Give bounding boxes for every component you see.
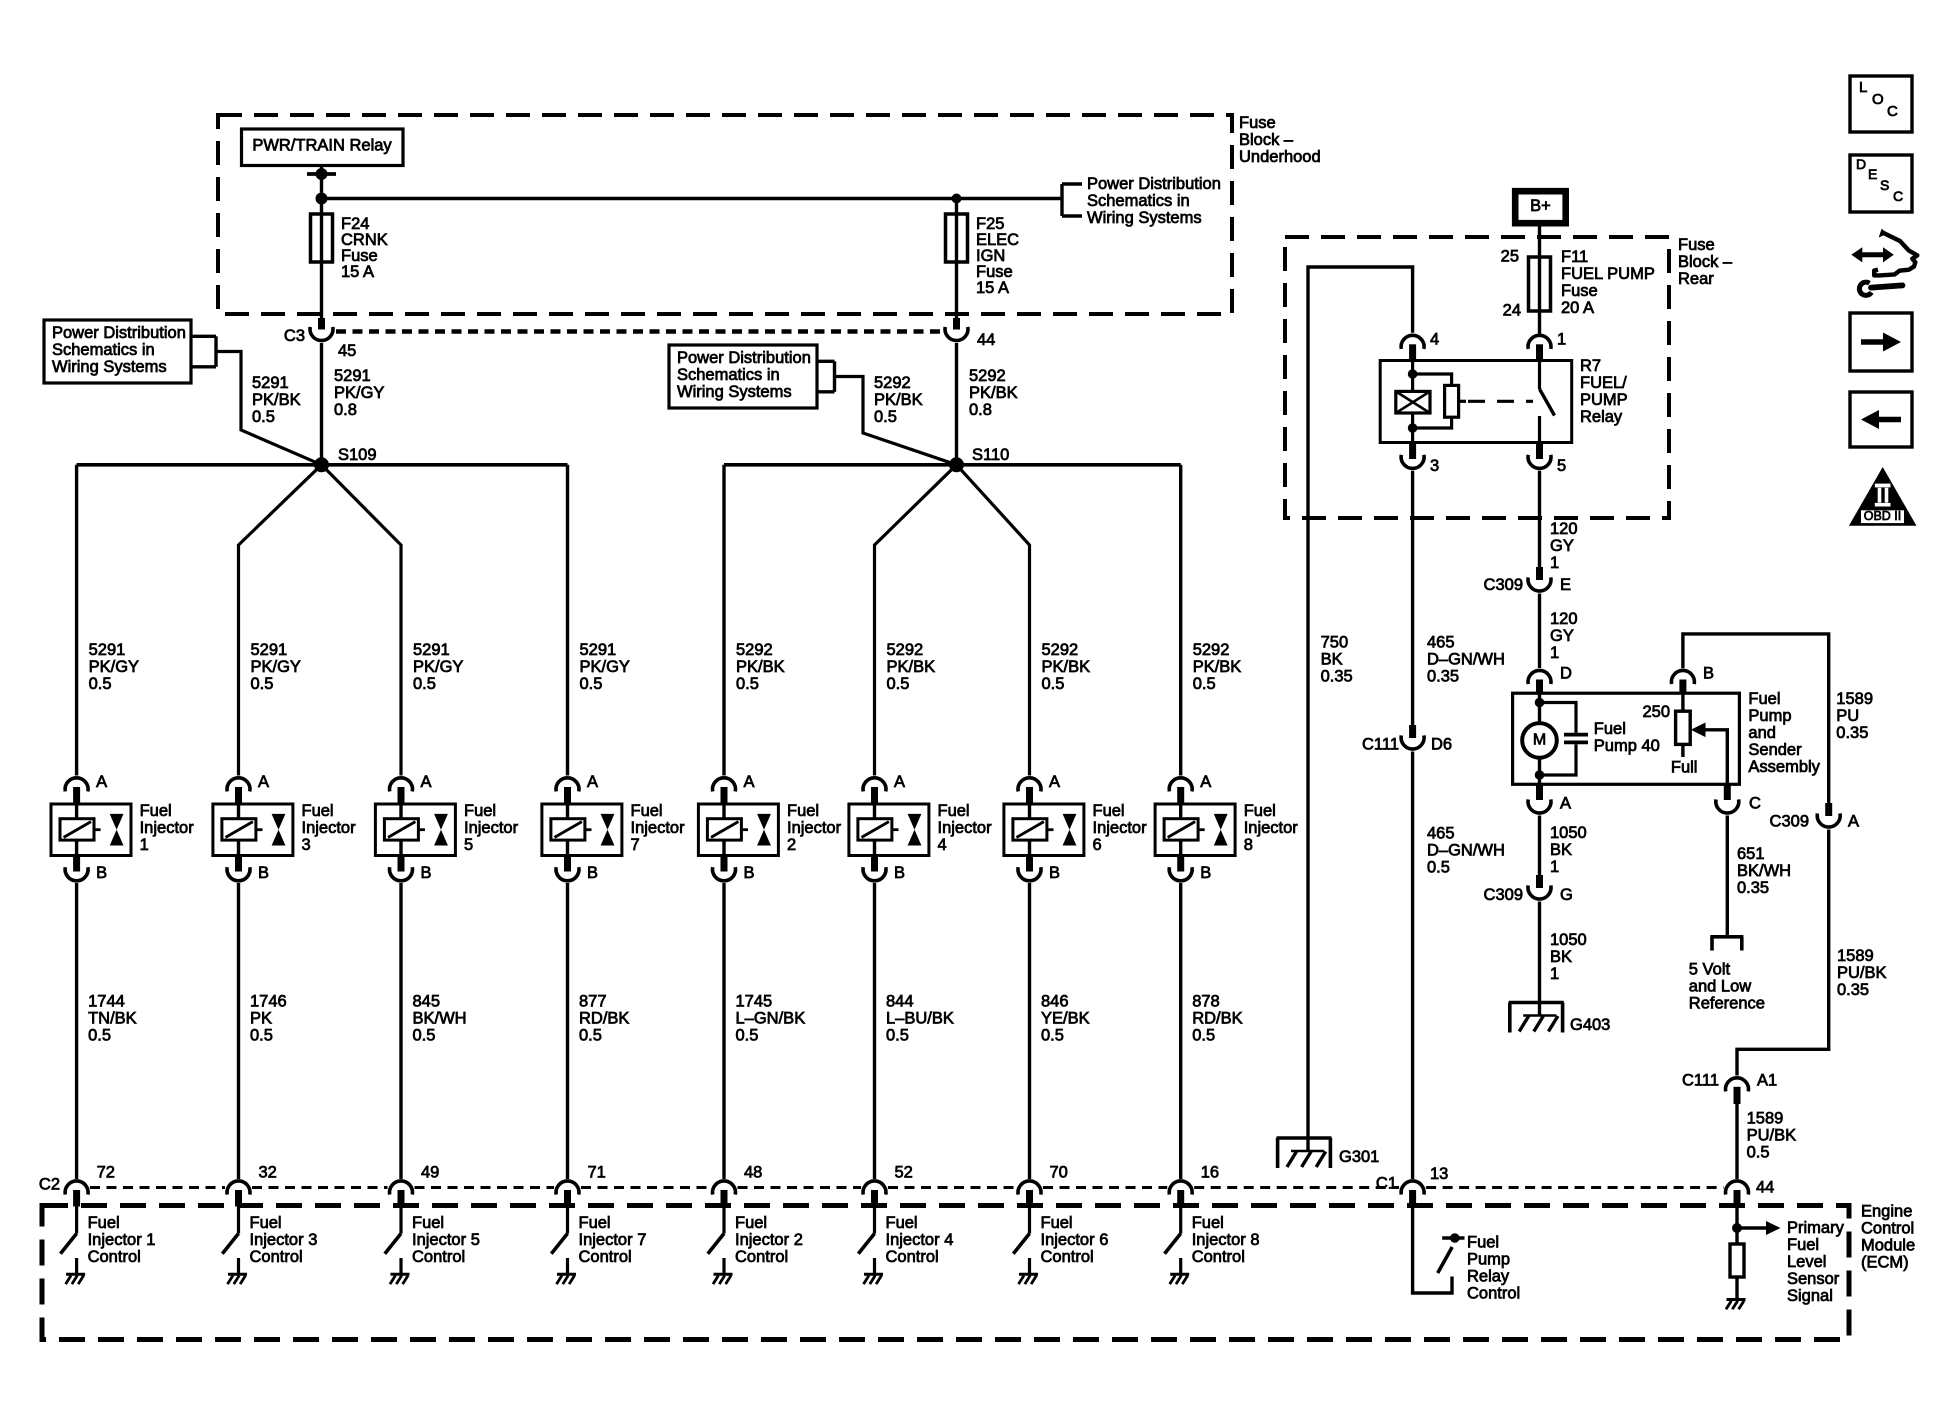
- connector C111 D6: [1409, 725, 1416, 738]
- svg-text:Fuel: Fuel: [1192, 1214, 1224, 1232]
- svg-text:120: 120: [1550, 520, 1578, 538]
- wire: bus down to injector 1: [75, 465, 78, 776]
- junction dot relay feed: [316, 168, 328, 180]
- splice S110 bus wire: [724, 463, 1181, 467]
- svg-text:Fuel: Fuel: [787, 802, 819, 820]
- svg-text:A: A: [258, 773, 269, 791]
- ground G403: [1509, 1001, 1564, 1005]
- ECM fuel injector 3 control switch: [237, 1207, 240, 1234]
- svg-text:1589: 1589: [1837, 947, 1874, 965]
- svg-text:Schematics in: Schematics in: [1087, 192, 1190, 210]
- svg-text:B: B: [258, 864, 269, 882]
- svg-text:651: 651: [1737, 845, 1765, 863]
- terminal bar on relay feed: [307, 172, 336, 176]
- svg-text:1: 1: [1550, 554, 1559, 572]
- svg-text:5292: 5292: [736, 641, 773, 659]
- svg-text:0.5: 0.5: [251, 675, 274, 693]
- svg-text:Control: Control: [1467, 1285, 1520, 1303]
- icon: DESC box: [1850, 155, 1912, 212]
- svg-text:PK/GY: PK/GY: [413, 658, 463, 676]
- ground (fuel injector 8 control): [1170, 1273, 1189, 1276]
- svg-text:5292: 5292: [874, 374, 911, 392]
- svg-text:Fuel: Fuel: [1787, 1236, 1819, 1254]
- svg-text:B: B: [894, 864, 905, 882]
- svg-text:71: 71: [588, 1164, 606, 1182]
- svg-text:465: 465: [1427, 825, 1455, 843]
- svg-text:B: B: [744, 864, 755, 882]
- svg-text:C1: C1: [1376, 1175, 1397, 1193]
- svg-text:B: B: [96, 864, 107, 882]
- injector 5 pin B connector: [398, 856, 405, 872]
- ECM pin 32 connector: [227, 1181, 250, 1195]
- svg-text:Injector 3: Injector 3: [250, 1231, 318, 1249]
- bracket for middle power distribution label: [817, 360, 835, 363]
- svg-text:Wiring Systems: Wiring Systems: [677, 383, 792, 401]
- svg-text:PU/BK: PU/BK: [1837, 964, 1887, 982]
- svg-text:Control: Control: [579, 1248, 632, 1266]
- svg-text:Sender: Sender: [1748, 741, 1802, 759]
- fuel injector 4: [849, 804, 929, 856]
- svg-text:Fuel: Fuel: [1467, 1234, 1499, 1252]
- wire: pump A to C309 G: [1538, 816, 1541, 877]
- fuel level signal arrow: [1737, 1226, 1768, 1229]
- svg-text:Injector 1: Injector 1: [88, 1231, 156, 1249]
- svg-text:6: 6: [1093, 836, 1102, 854]
- ECM fuel injector 5 control switch: [399, 1207, 402, 1234]
- svg-text:24: 24: [1503, 302, 1521, 320]
- svg-text:5292: 5292: [887, 641, 924, 659]
- svg-text:PK/BK: PK/BK: [874, 391, 923, 409]
- wire: C111 D6 to ECM pin 13: [1411, 752, 1414, 1180]
- svg-text:PK/BK: PK/BK: [252, 391, 301, 409]
- ECM pin 52 connector: [863, 1181, 886, 1195]
- relay coil branch: [1411, 361, 1414, 392]
- sender resistor open end (Full): [1681, 744, 1684, 757]
- connector C309 A: [1825, 803, 1832, 816]
- svg-text:PK/BK: PK/BK: [969, 384, 1018, 402]
- svg-text:Power Distribution: Power Distribution: [1087, 175, 1221, 193]
- fuel injector 5: [375, 804, 455, 856]
- svg-text:0.5: 0.5: [579, 1027, 602, 1045]
- fuel pump motor M: [1522, 723, 1557, 758]
- svg-text:15 A: 15 A: [976, 279, 1009, 297]
- svg-text:PU/BK: PU/BK: [1747, 1127, 1797, 1145]
- svg-text:Power Distribution: Power Distribution: [677, 349, 811, 367]
- svg-text:E: E: [1560, 576, 1571, 594]
- svg-text:5291: 5291: [580, 641, 617, 659]
- ground G301: [1277, 1136, 1332, 1140]
- wire: relay pin 5 to C309 E: [1538, 471, 1541, 568]
- svg-text:Injector 4: Injector 4: [886, 1231, 954, 1249]
- svg-text:0.5: 0.5: [886, 1027, 909, 1045]
- svg-text:0.5: 0.5: [580, 675, 603, 693]
- wire: main horizontal bus to F25 and power distribution ref: [322, 197, 1063, 200]
- svg-text:PK: PK: [250, 1010, 272, 1028]
- svg-text:RD/BK: RD/BK: [1192, 1010, 1242, 1028]
- wire: injector 3 B to ECM pin 32: [237, 883, 240, 1179]
- svg-text:52: 52: [895, 1164, 913, 1182]
- svg-text:Fuel: Fuel: [302, 802, 334, 820]
- ECM pin 16 connector: [1169, 1181, 1192, 1195]
- svg-text:0.35: 0.35: [1427, 668, 1459, 686]
- icon: back arrow box: [1850, 392, 1912, 447]
- svg-text:44: 44: [977, 331, 995, 349]
- svg-text:0.5: 0.5: [887, 675, 910, 693]
- svg-text:Level: Level: [1787, 1253, 1826, 1271]
- svg-text:5: 5: [464, 836, 473, 854]
- svg-text:TN/BK: TN/BK: [88, 1010, 137, 1028]
- svg-text:C2: C2: [39, 1176, 60, 1194]
- fuel injector 1: [51, 804, 131, 856]
- svg-text:44: 44: [1756, 1179, 1774, 1197]
- injector 8 pin A connector: [1169, 778, 1192, 792]
- injector 6 pin B connector: [1026, 856, 1033, 872]
- capacitor plates: [1564, 733, 1588, 737]
- wire: injector 6 B to ECM pin 70: [1028, 883, 1031, 1179]
- svg-text:PK/BK: PK/BK: [887, 658, 936, 676]
- svg-text:BK: BK: [1550, 841, 1572, 859]
- wire: C309 E to pump pin D: [1538, 594, 1541, 669]
- icon: vehicle service glyph (double arrow, car outline, wrench): [1851, 229, 1917, 296]
- svg-text:Underhood: Underhood: [1239, 148, 1321, 166]
- svg-text:B: B: [587, 864, 598, 882]
- svg-text:15 A: 15 A: [341, 263, 374, 281]
- svg-text:0.35: 0.35: [1321, 668, 1353, 686]
- svg-text:D–GN/WH: D–GN/WH: [1427, 842, 1505, 860]
- svg-text:0.5: 0.5: [874, 408, 897, 426]
- svg-text:S: S: [1880, 177, 1889, 193]
- sender resistor feed: [1681, 694, 1684, 711]
- wire: injector 5 B to ECM pin 49: [399, 883, 402, 1179]
- svg-text:L: L: [1859, 79, 1867, 96]
- svg-text:RD/BK: RD/BK: [579, 1010, 629, 1028]
- injector 7 pin A connector: [556, 778, 579, 792]
- ground (ECM fuel level): [1727, 1298, 1746, 1301]
- PWR/TRAIN Relay label box: [242, 129, 404, 166]
- pump suppression capacitor branch: [1540, 703, 1577, 733]
- fuel pump and sender assembly box: [1513, 693, 1740, 784]
- svg-text:0.5: 0.5: [736, 675, 759, 693]
- relay actuation dashed link: [1459, 400, 1466, 403]
- svg-text:Fuel: Fuel: [1594, 720, 1626, 738]
- svg-text:Control: Control: [735, 1248, 788, 1266]
- svg-text:Control: Control: [412, 1248, 465, 1266]
- ground (fuel injector 4 control): [864, 1273, 883, 1276]
- svg-text:Control: Control: [1861, 1220, 1914, 1238]
- ECM fuel injector 7 control switch: [566, 1207, 569, 1234]
- wire: pin 4 feed elbow to 750 BK: [1308, 267, 1413, 1152]
- ECM pin 70 connector: [1018, 1181, 1041, 1195]
- svg-text:0.5: 0.5: [1041, 1027, 1064, 1045]
- wire: injector 7 B to ECM pin 71: [566, 883, 569, 1179]
- svg-text:D6: D6: [1431, 736, 1452, 754]
- junction node at F24 top: [316, 193, 328, 205]
- dotted connector line C3 to 44: [336, 329, 943, 333]
- svg-text:4: 4: [938, 836, 947, 854]
- svg-text:48: 48: [744, 1164, 762, 1182]
- svg-text:C111: C111: [1362, 736, 1399, 754]
- svg-text:Pump: Pump: [1748, 707, 1791, 725]
- svg-text:49: 49: [421, 1164, 439, 1182]
- svg-text:465: 465: [1427, 634, 1455, 652]
- svg-text:PUMP: PUMP: [1580, 391, 1628, 409]
- power distribution label box (left): [44, 320, 191, 383]
- svg-text:C309: C309: [1770, 813, 1809, 831]
- ECM pin 13 connector: [1401, 1181, 1424, 1195]
- svg-text:1589: 1589: [1836, 690, 1873, 708]
- connector C3: [310, 327, 333, 341]
- ECM pin 49 connector: [389, 1181, 412, 1195]
- svg-text:16: 16: [1201, 1164, 1219, 1182]
- fuel injector 3: [213, 804, 293, 856]
- fuel injector 8: [1155, 804, 1235, 856]
- svg-text:5292: 5292: [969, 367, 1006, 385]
- svg-text:Control: Control: [1041, 1248, 1094, 1266]
- svg-text:G301: G301: [1339, 1148, 1379, 1166]
- connector C309 E: [1536, 567, 1543, 580]
- relay R7 pin 1 connector: [1528, 335, 1551, 349]
- wire: middle label to S110: [835, 377, 957, 465]
- wire: F24 to connector C3: [320, 262, 323, 319]
- injector 1 pin A connector: [65, 778, 88, 792]
- svg-text:BK: BK: [1550, 948, 1572, 966]
- pump pin A connector: [1536, 784, 1543, 800]
- wire: injector 8 B to ECM pin 16: [1179, 883, 1182, 1179]
- power distribution label box (middle): [669, 345, 817, 408]
- svg-text:Power Distribution: Power Distribution: [52, 324, 186, 342]
- svg-text:Pump 40: Pump 40: [1594, 737, 1660, 755]
- ground (fuel injector 5 control): [391, 1273, 410, 1276]
- svg-text:A1: A1: [1757, 1072, 1777, 1090]
- svg-text:PK/GY: PK/GY: [334, 384, 384, 402]
- svg-text:YE/BK: YE/BK: [1041, 1010, 1090, 1028]
- ECM pin 71 connector: [556, 1181, 579, 1195]
- svg-text:1050: 1050: [1550, 824, 1587, 842]
- svg-text:Control: Control: [88, 1248, 141, 1266]
- svg-text:G: G: [1560, 886, 1573, 904]
- svg-text:Injector: Injector: [140, 819, 195, 837]
- ECM fuel level sense network: [1735, 1208, 1738, 1245]
- svg-text:0.5: 0.5: [250, 1027, 273, 1045]
- svg-text:844: 844: [886, 993, 914, 1011]
- svg-text:D: D: [1560, 665, 1572, 683]
- relay switch: [1538, 361, 1541, 390]
- svg-text:PWR/TRAIN Relay: PWR/TRAIN Relay: [252, 137, 392, 155]
- svg-text:25: 25: [1501, 248, 1519, 266]
- fuel injector 2: [698, 804, 778, 856]
- svg-text:45: 45: [338, 342, 356, 360]
- svg-text:Fuel: Fuel: [250, 1214, 282, 1232]
- fuse F24 CRNK 15A: [311, 214, 333, 262]
- relay R7 pin 4 connector: [1401, 335, 1424, 349]
- svg-text:A: A: [744, 773, 755, 791]
- svg-text:Fuel: Fuel: [140, 802, 172, 820]
- svg-text:S109: S109: [338, 446, 377, 464]
- wire: injector 1 B to ECM pin 72: [75, 883, 78, 1179]
- svg-text:L–GN/BK: L–GN/BK: [736, 1010, 806, 1028]
- svg-text:GY: GY: [1550, 627, 1574, 645]
- injector 8 pin B connector: [1177, 856, 1184, 872]
- injector 5 pin A connector: [389, 778, 412, 792]
- svg-text:A: A: [1560, 795, 1571, 813]
- svg-text:1: 1: [1557, 331, 1566, 349]
- icon: OBD II triangle: [1849, 467, 1917, 526]
- svg-text:Block –: Block –: [1678, 253, 1733, 271]
- relay resistor branch: [1413, 374, 1452, 385]
- relay R7 FUEL/PUMP relay box: [1380, 361, 1572, 443]
- svg-text:Injector 5: Injector 5: [412, 1231, 480, 1249]
- svg-text:A: A: [1848, 813, 1859, 831]
- svg-text:Full: Full: [1671, 759, 1698, 777]
- injector 7 pin B connector: [564, 856, 571, 872]
- svg-text:A: A: [587, 773, 598, 791]
- svg-text:Engine: Engine: [1861, 1203, 1912, 1221]
- svg-text:L–BU/BK: L–BU/BK: [886, 1010, 954, 1028]
- injector 6 pin A connector: [1018, 778, 1041, 792]
- svg-text:C309: C309: [1484, 576, 1523, 594]
- injector 3 pin A connector: [227, 778, 250, 792]
- svg-text:Control: Control: [1192, 1248, 1245, 1266]
- svg-text:Fuel: Fuel: [1093, 802, 1125, 820]
- svg-text:0.5: 0.5: [88, 1027, 111, 1045]
- injector 2 pin B connector: [721, 856, 728, 872]
- svg-text:BK/WH: BK/WH: [1737, 862, 1791, 880]
- fuel pump motor lower wire: [1538, 758, 1541, 785]
- svg-text:Wiring Systems: Wiring Systems: [52, 358, 167, 376]
- ECM pin 44 connector: [1726, 1181, 1749, 1195]
- wire: S109 diagonal to injector 3 column: [239, 465, 322, 776]
- svg-text:Wiring Systems: Wiring Systems: [1087, 209, 1202, 227]
- svg-text:5291: 5291: [413, 641, 450, 659]
- svg-text:250: 250: [1642, 703, 1670, 721]
- svg-text:Module: Module: [1861, 1237, 1915, 1255]
- svg-text:13: 13: [1430, 1165, 1448, 1183]
- svg-text:32: 32: [259, 1164, 277, 1182]
- splice S110: [949, 457, 964, 472]
- svg-text:120: 120: [1550, 610, 1578, 628]
- svg-text:A: A: [96, 773, 107, 791]
- svg-text:0.5: 0.5: [736, 1027, 759, 1045]
- svg-text:Injector: Injector: [1244, 819, 1299, 837]
- svg-text:M: M: [1533, 732, 1546, 749]
- wire: S110 diagonal to injector 6 column: [957, 465, 1030, 776]
- icon: LOC box: [1850, 76, 1912, 132]
- svg-text:Reference: Reference: [1689, 995, 1765, 1013]
- wire: S110 diagonal to injector 4 column: [875, 465, 957, 776]
- connector 44 stub: [953, 318, 960, 330]
- battery B+ feed box: [1515, 191, 1566, 223]
- sender pin C connector: [1724, 784, 1731, 800]
- relay R7 pin 5 connector: [1536, 443, 1543, 460]
- ground (fuel injector 6 control): [1019, 1273, 1038, 1276]
- bracket for left power distribution label: [191, 335, 216, 338]
- svg-text:Control: Control: [886, 1248, 939, 1266]
- svg-text:0.35: 0.35: [1737, 879, 1769, 897]
- splice S109 bus wire: [77, 463, 568, 467]
- svg-text:0.35: 0.35: [1836, 724, 1868, 742]
- svg-text:O: O: [1872, 91, 1884, 108]
- junction node at F25 top: [952, 194, 962, 204]
- svg-text:Signal: Signal: [1787, 1287, 1833, 1305]
- svg-text:5292: 5292: [1042, 641, 1079, 659]
- pump pin D connector: [1528, 670, 1551, 684]
- svg-text:Relay: Relay: [1580, 408, 1623, 426]
- svg-text:845: 845: [413, 993, 441, 1011]
- svg-text:PK/GY: PK/GY: [251, 658, 301, 676]
- svg-text:Assembly: Assembly: [1748, 758, 1820, 776]
- svg-text:20 A: 20 A: [1561, 299, 1594, 317]
- svg-text:0.8: 0.8: [969, 401, 992, 419]
- svg-text:5 Volt: 5 Volt: [1689, 961, 1731, 979]
- svg-text:PK/BK: PK/BK: [1193, 658, 1242, 676]
- ground (fuel injector 1 control): [66, 1273, 85, 1276]
- svg-text:Relay: Relay: [1467, 1268, 1510, 1286]
- relay coil junction top: [1408, 369, 1418, 379]
- svg-text:Injector 7: Injector 7: [579, 1231, 647, 1249]
- svg-text:PK/GY: PK/GY: [89, 658, 139, 676]
- svg-text:0.5: 0.5: [1193, 675, 1216, 693]
- fuel injector 7: [542, 804, 622, 856]
- ECM fuel injector 6 control switch: [1028, 1207, 1031, 1234]
- svg-text:750: 750: [1321, 634, 1349, 652]
- injector 4 pin A connector: [863, 778, 886, 792]
- wire: bus down to injector 8: [1179, 465, 1182, 776]
- svg-text:0.8: 0.8: [334, 401, 357, 419]
- svg-text:R7: R7: [1580, 357, 1601, 375]
- svg-text:C111: C111: [1682, 1072, 1719, 1090]
- svg-text:877: 877: [579, 993, 607, 1011]
- svg-text:C3: C3: [284, 327, 305, 345]
- svg-text:BK: BK: [1321, 651, 1343, 669]
- connector 44 (fuse block): [945, 327, 968, 341]
- wire: bus down to injector 7: [566, 465, 569, 776]
- svg-text:Fuel: Fuel: [88, 1214, 120, 1232]
- svg-text:5291: 5291: [89, 641, 126, 659]
- svg-text:FUEL PUMP: FUEL PUMP: [1561, 265, 1655, 283]
- svg-text:1746: 1746: [250, 993, 287, 1011]
- svg-text:7: 7: [631, 836, 640, 854]
- splice S109: [314, 457, 329, 472]
- ECM fuel injector 8 control switch: [1179, 1207, 1182, 1234]
- svg-text:Fuel: Fuel: [1748, 690, 1780, 708]
- ground (fuel injector 2 control): [714, 1273, 733, 1276]
- svg-text:GY: GY: [1550, 537, 1574, 555]
- svg-text:OBD II: OBD II: [1864, 509, 1902, 523]
- svg-text:G403: G403: [1570, 1016, 1610, 1034]
- svg-text:Fuse: Fuse: [1561, 282, 1598, 300]
- wire: injector 2 B to ECM pin 48: [722, 883, 725, 1179]
- svg-text:A: A: [1200, 773, 1211, 791]
- svg-text:0.5: 0.5: [1192, 1027, 1215, 1045]
- svg-text:1: 1: [1550, 644, 1559, 662]
- svg-text:1744: 1744: [88, 993, 125, 1011]
- svg-text:Control: Control: [250, 1248, 303, 1266]
- connector C111 A1: [1726, 1078, 1749, 1092]
- injector 4 pin B connector: [871, 856, 878, 872]
- svg-text:PK/GY: PK/GY: [580, 658, 630, 676]
- wire: C111 A1 to ECM pin 44: [1735, 1104, 1738, 1179]
- svg-text:Fuel: Fuel: [1244, 802, 1276, 820]
- svg-text:Fuel: Fuel: [735, 1214, 767, 1232]
- sender pin B connector: [1671, 670, 1694, 684]
- injector 3 pin B connector: [235, 856, 242, 872]
- frame: fuse block underhood dashed box: [218, 115, 1232, 314]
- connector C3 stub: [318, 318, 325, 330]
- wire: bus down to injector 2: [722, 465, 725, 776]
- svg-text:C: C: [1887, 103, 1898, 120]
- svg-text:Injector: Injector: [938, 819, 993, 837]
- svg-text:Fuel: Fuel: [886, 1214, 918, 1232]
